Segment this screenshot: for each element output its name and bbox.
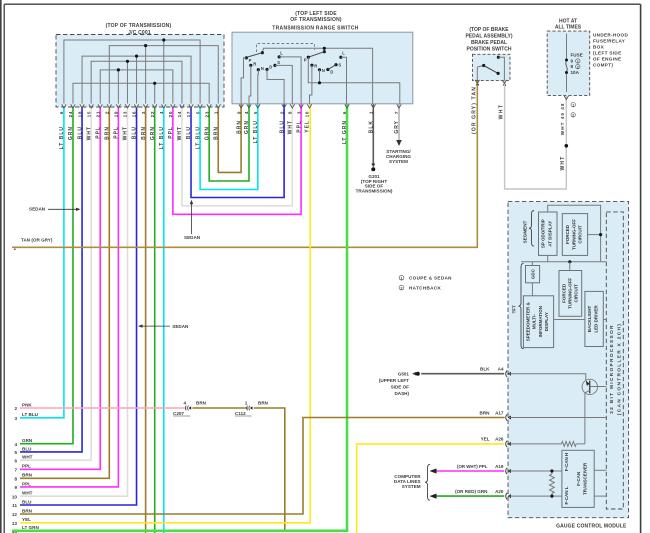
circled 2 — [571, 113, 575, 117]
svg-text:(OR WHT) PPL: (OR WHT) PPL — [457, 464, 488, 469]
svg-text:TRANSCEIVER: TRANSCEIVER — [582, 462, 587, 495]
J/C jumper pins 18-16-17 — [82, 56, 191, 103]
svg-text:R: R — [253, 61, 256, 66]
svg-text:LT GRN: LT GRN — [342, 120, 348, 144]
connector C112 pin 1 — [247, 406, 248, 411]
stub to forced lower — [569, 262, 571, 271]
wire GRN J/C pin 24 to left edge — [20, 107, 73, 444]
left wafer wire S to pin 8 — [275, 65, 292, 103]
left wafer wire R to pin 4 — [249, 65, 251, 103]
box FORCED TURNING-OFF CIRCUIT upper — [562, 214, 587, 256]
svg-text:10A: 10A — [571, 70, 580, 75]
connector C207 pin 4 — [185, 406, 186, 411]
right wafer wire R to pin 10 — [310, 65, 312, 103]
left wafer wire P to pin 9 — [241, 58, 246, 104]
svg-text:S: S — [338, 63, 341, 68]
svg-text:BOX: BOX — [593, 45, 605, 50]
junction dot — [162, 38, 165, 41]
svg-text:D: D — [269, 64, 272, 69]
left wafer contact D — [265, 68, 268, 71]
svg-text:OF ENGINE: OF ENGINE — [593, 57, 621, 62]
svg-text:SP ODO/TRIP: SP ODO/TRIP — [541, 219, 546, 248]
wire BLU J/C pin 18 to left edge — [20, 107, 82, 452]
svg-text:SYSTEM: SYSTEM — [389, 159, 408, 164]
svg-text:INFORMATION: INFORMATION — [538, 306, 543, 337]
svg-text:CIRCUIT: CIRCUIT — [578, 225, 583, 243]
svg-text:GDC: GDC — [530, 268, 535, 279]
svg-text:HATCHBACK: HATCHBACK — [409, 286, 441, 291]
svg-text:N: N — [261, 66, 264, 71]
CAN termination resistor R2 — [550, 474, 555, 494]
wire BLU J/C pin 16 to left edge — [20, 107, 137, 505]
svg-text:(OR RED) GRN: (OR RED) GRN — [455, 489, 488, 494]
transistor Q1 — [582, 379, 597, 394]
junction dot — [144, 44, 147, 47]
svg-text:32 BIT MICROPROCESSOR: 32 BIT MICROPROCESSOR — [609, 324, 615, 414]
svg-text:13: 13 — [12, 521, 18, 526]
right wafer wire P,N to pin 7 — [308, 57, 400, 103]
module pin A4 — [506, 371, 507, 377]
svg-text:MULTI-: MULTI- — [532, 314, 537, 329]
module pin A20 — [506, 493, 507, 499]
svg-text:GRN: GRN — [22, 438, 33, 443]
svg-text:(TOP LEFT SIDE: (TOP LEFT SIDE — [295, 11, 337, 17]
svg-text:WHT: WHT — [560, 156, 566, 171]
svg-text:BRAKE PEDAL: BRAKE PEDAL — [471, 40, 507, 46]
left wafer contact N — [257, 68, 260, 71]
wire GRY range switch pin 7 to starting/charging system — [398, 104, 400, 140]
svg-text:6: 6 — [14, 458, 17, 463]
svg-text:YEL: YEL — [22, 517, 31, 522]
circled 1 — [571, 103, 575, 107]
wire WHT J/C pin 13 to left edge — [20, 107, 127, 496]
gauge control module box — [508, 202, 629, 518]
left wafer contact P — [245, 56, 248, 59]
svg-text:5: 5 — [253, 111, 258, 114]
wire WHT J/C pin 15 to left edge — [20, 107, 91, 460]
transmission range switch box — [232, 32, 413, 104]
svg-text:OF TRANSMISSION): OF TRANSMISSION) — [290, 17, 342, 23]
svg-text:2: 2 — [577, 65, 579, 69]
switch mechanical linkage dashed — [257, 44, 315, 53]
wire LT GRN left edge pin 14 to range switch pin 6 — [12, 104, 347, 531]
svg-text:C112: C112 — [235, 411, 246, 416]
svg-text:UNDER-HOOD: UNDER-HOOD — [593, 33, 628, 38]
svg-text:F-CAN H: F-CAN H — [564, 453, 569, 472]
svg-text:COUPE & SEDAN: COUPE & SEDAN — [409, 276, 452, 281]
wire PPL A19 to computer data lines — [436, 470, 504, 472]
svg-text:(LEFT SIDE: (LEFT SIDE — [593, 51, 622, 56]
svg-text:4: 4 — [183, 400, 186, 405]
svg-text:L: L — [342, 50, 345, 55]
svg-text:LT BLU: LT BLU — [22, 412, 39, 417]
svg-text:BLU: BLU — [22, 446, 32, 451]
svg-text:BLK: BLK — [369, 120, 375, 133]
svg-text:TAN (OR GRY): TAN (OR GRY) — [21, 237, 53, 242]
wire forced upper to loop — [588, 234, 601, 236]
svg-text:GRY: GRY — [394, 120, 400, 134]
range switch pin arrows — [239, 104, 243, 108]
svg-text:CIRCUIT: CIRCUIT — [574, 284, 579, 302]
box F-CAN TRANSCEIVER — [562, 450, 594, 507]
svg-text:BRN: BRN — [480, 410, 491, 415]
ground G501 symbol — [412, 372, 416, 376]
module internal wire A19 to F-CAN H — [509, 470, 562, 472]
note circled 2 HATCHBACK — [399, 285, 404, 290]
svg-text:6: 6 — [342, 111, 347, 114]
svg-text:TRANSMISSION RANGE SWITCH: TRANSMISSION RANGE SWITCH — [272, 25, 358, 31]
svg-text:TRANSMISSION): TRANSMISSION) — [356, 189, 393, 194]
svg-text:SPEEDOMETER &: SPEEDOMETER & — [525, 301, 530, 341]
brake switch pin arrows — [475, 80, 479, 84]
svg-text:9: 9 — [236, 111, 241, 114]
svg-text:9: 9 — [14, 485, 17, 490]
svg-text:(TOP OF BRAKE: (TOP OF BRAKE — [469, 27, 509, 33]
svg-text:4: 4 — [244, 111, 249, 114]
svg-text:(UPPER LEFT: (UPPER LEFT — [379, 378, 409, 383]
svg-text:P: P — [249, 58, 252, 63]
wire BRN J/C pin 1 U-turn to range switch — [218, 104, 241, 172]
module pin A26 — [506, 441, 507, 447]
svg-text:1: 1 — [572, 104, 574, 108]
box FORCED TURNING-OFF CIRCUIT lower — [559, 271, 582, 317]
svg-text:FORCED: FORCED — [561, 283, 566, 303]
right wafer contact L — [339, 56, 342, 59]
svg-text:1: 1 — [369, 111, 374, 114]
box BACKLIGHT LED DRIVER — [585, 291, 603, 346]
svg-text:3: 3 — [296, 111, 301, 114]
svg-text:J/C C001: J/C C001 — [128, 30, 151, 36]
svg-text:2: 2 — [14, 406, 17, 411]
svg-text:TFT: TFT — [511, 305, 516, 314]
J/C pin arrows — [62, 104, 66, 108]
svg-text:GAUGE CONTROL MODULE: GAUGE CONTROL MODULE — [556, 523, 627, 529]
J/C jumper pins 15-13-14 — [91, 61, 182, 103]
svg-text:1: 1 — [577, 60, 579, 64]
svg-text:PPL: PPL — [22, 464, 31, 469]
svg-text:PNK: PNK — [22, 402, 32, 407]
svg-text:2: 2 — [279, 111, 284, 114]
wire speedometer to backlight — [554, 319, 585, 321]
svg-text:3: 3 — [14, 416, 17, 421]
wire LT BLU J/C pin 5 U-turn to range switch — [200, 104, 258, 190]
J/C jumper pins 2-3-1 — [109, 46, 218, 104]
right wafer pivot and blade — [323, 50, 326, 53]
junction connector J/C C001 box — [56, 35, 224, 108]
wire LT BLU J/C pin 6 to left edge — [20, 107, 64, 418]
stub backlight to microprocessor — [603, 319, 606, 321]
svg-text:G501: G501 — [398, 372, 410, 377]
J/C jumper pins 21-19-20 — [100, 70, 173, 104]
svg-text:SYSTEM: SYSTEM — [402, 484, 421, 489]
brake switch contacts — [476, 67, 478, 81]
svg-text:LT BLU: LT BLU — [253, 120, 259, 143]
svg-text:(OR GRY) TAN: (OR GRY) TAN — [472, 86, 478, 134]
svg-text:LED DRIVER: LED DRIVER — [593, 305, 598, 333]
wire WHT fuse to brake switch pin 2 — [505, 81, 567, 189]
J/C jumper pins 6-4-5 — [64, 40, 200, 104]
svg-text:BRN: BRN — [22, 508, 33, 513]
svg-text:BRN: BRN — [196, 400, 207, 405]
svg-text:2: 2 — [572, 114, 574, 118]
box SP ODO/TRIP AT DISPLAY — [539, 212, 558, 255]
svg-text:7: 7 — [394, 111, 399, 114]
arrow to starting/charging system — [396, 140, 402, 146]
right wafer contact D — [326, 68, 329, 71]
svg-text:SIDE OF: SIDE OF — [391, 385, 410, 390]
wire BLU J/C pin 17 U-turn to range switch — [191, 104, 284, 198]
right wafer wire L to pin 6 — [341, 57, 347, 103]
svg-text:A19: A19 — [495, 464, 504, 469]
svg-text:SEDAN: SEDAN — [29, 207, 46, 212]
wire WHT J/C pin 14 U-turn to range switch — [182, 104, 292, 206]
svg-text:GRN: GRN — [244, 120, 250, 134]
transistor emitter down to resistor — [584, 393, 586, 444]
module internal wire A4 to transistor — [509, 374, 586, 381]
switch common bus to pin 1 — [262, 48, 372, 103]
svg-text:LT GRN: LT GRN — [22, 525, 39, 530]
svg-text:12: 12 — [12, 512, 18, 517]
wire BLK range switch pin 1 to ground G201 — [372, 104, 374, 164]
svg-text:COMPT): COMPT) — [593, 63, 613, 68]
wire YEL left edge pin 13 to range switch pin 10 — [20, 104, 310, 523]
svg-text:A26: A26 — [495, 437, 504, 442]
svg-text:C207: C207 — [173, 411, 184, 416]
wire LT BLU J/C pin 4 down off-page — [163, 107, 165, 533]
svg-text:DISPLAY: DISPLAY — [544, 312, 549, 331]
svg-text:AT DISPLAY: AT DISPLAY — [548, 221, 553, 247]
right wafer contact N — [318, 68, 321, 71]
svg-text:FUSE/RELAY: FUSE/RELAY — [593, 39, 625, 44]
under-hood fuse/relay box — [547, 31, 590, 95]
left wafer contact L — [278, 55, 281, 58]
box SPEEDOMETER & MULTI-INFORMATION DISPLAY — [523, 296, 553, 348]
left wafer wire D to pin 2 — [267, 70, 284, 104]
bus junction dot right pivot — [323, 48, 325, 51]
svg-text:WHT: WHT — [22, 455, 33, 460]
stub sp-odo bottom — [547, 255, 549, 261]
svg-text:5: 5 — [14, 450, 17, 455]
junction dot bus — [568, 260, 571, 263]
wire BRN J/C pin 2 to left edge — [20, 107, 109, 478]
wire GDC to speedometer — [531, 283, 533, 296]
internal bus horizontal — [521, 261, 606, 263]
svg-text:4: 4 — [14, 442, 17, 447]
left wafer pivot and blade — [261, 51, 264, 54]
svg-text:FUSE: FUSE — [571, 53, 583, 58]
svg-text:POSITION SWITCH: POSITION SWITCH — [467, 47, 512, 53]
svg-text:DASH): DASH) — [394, 391, 409, 396]
right wafer contact S — [334, 63, 337, 66]
svg-text:WHT: WHT — [22, 491, 33, 496]
svg-text:WHT 49 48: WHT 49 48 — [560, 103, 565, 136]
fuse element — [566, 34, 568, 59]
left wafer contact R — [249, 64, 252, 67]
svg-text:BLU: BLU — [279, 120, 285, 133]
svg-text:1: 1 — [245, 400, 248, 405]
F-CAN stubs to microprocessor — [594, 469, 606, 471]
svg-text:(CAN CONTROLLER X 2CH): (CAN CONTROLLER X 2CH) — [616, 323, 622, 415]
module internal wire A17 to microprocessor — [509, 417, 606, 419]
right wafer contact P — [307, 56, 310, 59]
wire PPL J/C pin 20 U-turn to range switch — [173, 104, 301, 214]
wire GRN A20 to computer data lines — [436, 495, 504, 497]
wire PPL J/C pin 21 to left edge — [20, 107, 100, 469]
svg-text:YEL: YEL — [481, 437, 490, 442]
svg-text:TURNING-OFF: TURNING-OFF — [568, 278, 573, 309]
wire TAN (OR GRY) brake switch pin 1 to left edge — [12, 81, 477, 248]
fuse box output pin arrow — [564, 96, 568, 100]
resistor R1 — [561, 442, 576, 447]
note circled 1 COUPE & SEDAN — [399, 275, 404, 280]
svg-text:8: 8 — [571, 64, 574, 69]
svg-text:BRN: BRN — [236, 120, 242, 134]
brace computer data lines — [425, 464, 430, 500]
svg-text:PPL: PPL — [296, 120, 302, 133]
junction dot — [117, 68, 120, 71]
junction dot — [135, 55, 138, 58]
svg-text:BACKLIGHT: BACKLIGHT — [587, 306, 592, 333]
svg-text:8: 8 — [14, 477, 17, 482]
module pin A17 — [506, 414, 507, 420]
box GDC — [526, 266, 540, 283]
wire sp-odo top loop — [548, 205, 601, 262]
svg-text:N: N — [322, 68, 325, 73]
svg-text:P: P — [304, 58, 307, 63]
svg-text:A17: A17 — [495, 410, 504, 415]
module internal wire A20 to F-CAN L — [509, 495, 562, 497]
svg-text:8: 8 — [288, 111, 293, 114]
junction dot — [126, 60, 129, 63]
svg-text:PEDAL ASSEMBLY): PEDAL ASSEMBLY) — [465, 34, 512, 40]
J/C jumper pins 24-22-23 — [73, 83, 209, 103]
junction dot A19 — [550, 469, 553, 472]
junction dot on WHT — [565, 144, 569, 148]
svg-text:11: 11 — [12, 503, 17, 508]
svg-text:L: L — [280, 50, 283, 55]
svg-text:F-CAN: F-CAN — [576, 472, 581, 486]
wire BRN C207 to C112 — [192, 407, 248, 409]
junction dot — [153, 82, 156, 85]
svg-text:F-CAN L: F-CAN L — [564, 486, 569, 504]
stub GDC top — [531, 262, 533, 266]
svg-text:10: 10 — [12, 494, 18, 499]
svg-text:R: R — [314, 63, 317, 68]
wire BRN J/C pin 3 down off-page — [145, 107, 147, 533]
svg-text:SEDAN: SEDAN — [172, 324, 189, 329]
transistor collector to microprocessor — [590, 386, 607, 388]
svg-text:YEL: YEL — [305, 120, 311, 133]
left wafer contact S — [273, 64, 276, 67]
svg-text:SEDAN: SEDAN — [184, 235, 201, 240]
svg-text:BRN: BRN — [22, 473, 33, 478]
svg-text:WHT: WHT — [499, 103, 505, 119]
svg-text:PPL: PPL — [22, 481, 31, 486]
svg-text:7: 7 — [14, 468, 17, 473]
junction dot N on P bus — [318, 81, 321, 84]
svg-text:BLK: BLK — [480, 367, 490, 372]
svg-text:ALL TIMES: ALL TIMES — [555, 24, 582, 30]
svg-text:BRN: BRN — [258, 400, 269, 405]
svg-text:D: D — [330, 69, 333, 74]
svg-text:9: 9 — [571, 59, 574, 64]
svg-text:10: 10 — [305, 111, 310, 117]
32-bit microprocessor dashed box — [606, 212, 623, 509]
svg-text:WHT: WHT — [288, 120, 294, 134]
brace TFT — [518, 263, 523, 348]
module pin A19 — [506, 468, 507, 474]
module internal wire A26 with resistor R1 — [509, 443, 561, 445]
svg-text:A20: A20 — [495, 489, 504, 494]
junction dot A20 — [550, 495, 553, 498]
svg-text:SEGMENT: SEGMENT — [523, 220, 528, 243]
wire BLK G501 to A4 — [421, 373, 504, 375]
right wafer segment D-S — [328, 65, 336, 70]
svg-text:FORCED: FORCED — [565, 224, 570, 244]
svg-text:TURNING-OFF: TURNING-OFF — [571, 219, 576, 250]
svg-text:A4: A4 — [498, 367, 504, 372]
wire PPL J/C pin 19 to left edge — [20, 107, 118, 487]
wire PNK left edge pin 2 to C207 — [20, 407, 187, 409]
svg-text:(TOP OF TRANSMISSION): (TOP OF TRANSMISSION) — [106, 23, 172, 29]
svg-text:S: S — [277, 60, 280, 65]
left wafer wire N to pin 5 — [257, 70, 260, 104]
brake switch blade (open) — [484, 66, 498, 74]
brace segment — [529, 211, 534, 247]
wire BRN C112 down off-page — [254, 408, 285, 530]
wire GRN J/C pin 22 down off-page — [154, 107, 156, 533]
svg-text:BLU: BLU — [22, 499, 32, 504]
brake pedal position switch box — [473, 54, 511, 80]
wire YEL A26 down off-page — [357, 444, 505, 533]
wire BRN left edge pin 12 to module pin A17 — [20, 418, 505, 515]
left wafer wire L to pin 3 — [279, 57, 301, 104]
right wafer contact R — [310, 64, 313, 67]
ground G201 symbol — [371, 164, 375, 168]
wire GRN J/C pin 23 U-turn to range switch — [209, 104, 249, 181]
